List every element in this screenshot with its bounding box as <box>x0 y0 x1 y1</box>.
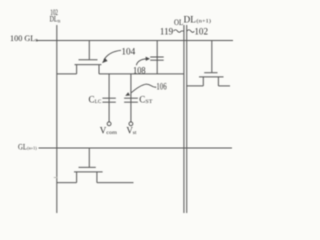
svg-text:108: 108 <box>133 65 146 75</box>
svg-text:119: 119 <box>160 26 174 36</box>
svg-text:OL: OL <box>174 18 183 27</box>
svg-text:(n+1): (n+1) <box>196 20 211 25</box>
svg-text:LC: LC <box>95 100 102 105</box>
svg-text:DL: DL <box>184 14 196 24</box>
svg-text:104: 104 <box>121 46 135 56</box>
svg-text:DL: DL <box>50 14 58 24</box>
svg-text:106: 106 <box>156 81 167 91</box>
svg-text:100 GL: 100 GL <box>10 33 35 43</box>
svg-text:C: C <box>89 94 95 104</box>
svg-text:ST: ST <box>145 100 152 105</box>
svg-text:102: 102 <box>194 26 208 36</box>
svg-text:GL: GL <box>18 141 27 151</box>
svg-text:(n+1): (n+1) <box>27 146 37 151</box>
svg-text:com: com <box>106 131 117 136</box>
